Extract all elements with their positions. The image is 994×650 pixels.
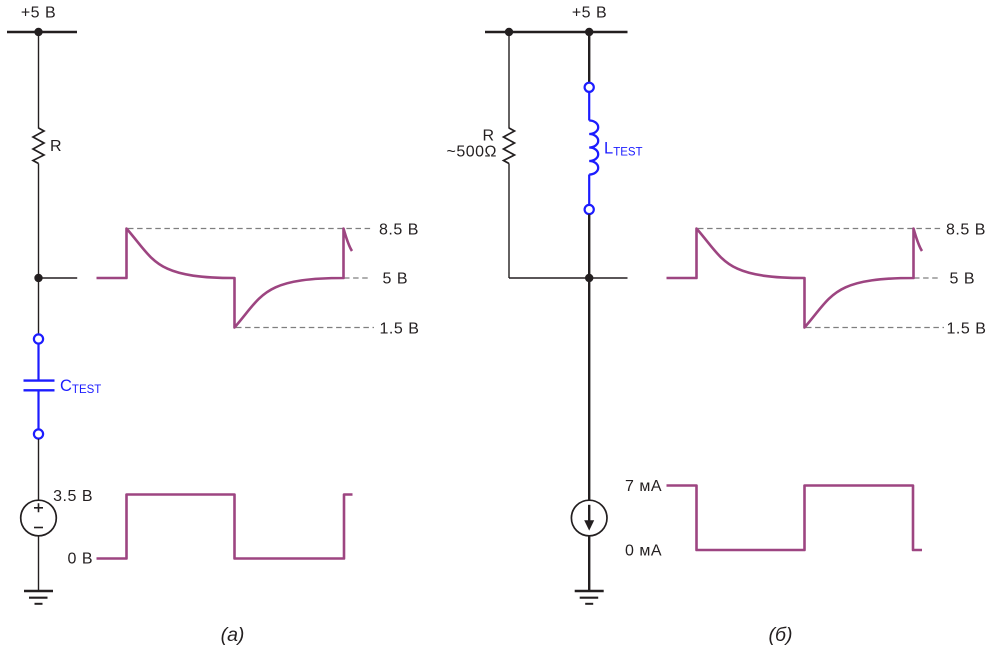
wire: terminal to voltage source V1 <box>38 439 40 501</box>
wire: bottom plate to bottom terminal (blue) <box>37 392 39 430</box>
svg-text:8.5 В: 8.5 В <box>946 222 986 239</box>
svg-text:LTEST: LTEST <box>604 140 643 159</box>
wire: terminal to inductor coil (blue) <box>588 92 590 120</box>
svg-text:CTEST: CTEST <box>60 377 101 396</box>
wire: node A stub toward waveform (a) <box>39 277 78 279</box>
capacitor C_TEST bottom plate <box>24 389 55 391</box>
wire: source to ground (a) <box>38 536 40 591</box>
resistor R ~500ohm (b) <box>504 128 515 164</box>
bottom rail joining R and L branches (b) <box>509 277 628 279</box>
ground (b) <box>575 591 604 604</box>
svg-text:+5 В: +5 В <box>21 5 56 22</box>
dashed level line 5V (b) <box>914 277 941 279</box>
node B junction dot (b) <box>585 274 593 282</box>
wire: resistor to bottom rail (b) <box>508 164 510 279</box>
wire: rail to resistor R (a) <box>38 32 40 129</box>
wire: node B to current source (b) <box>588 278 590 500</box>
+5V supply rail (b) <box>485 31 628 34</box>
dashed level line 8.5V (a) <box>128 228 371 230</box>
voltage source V1 circle <box>21 500 57 536</box>
svg-text:1.5 В: 1.5 В <box>947 321 987 338</box>
wire: coil to bottom terminal (blue) <box>588 175 590 205</box>
waveform: source current square wave (b) <box>667 486 923 551</box>
node: rail junction at L branch (b) <box>585 28 593 36</box>
inductor top terminal circle <box>585 83 594 92</box>
svg-text:3.5 В: 3.5 В <box>53 488 93 505</box>
svg-text:0 мА: 0 мА <box>625 543 662 560</box>
svg-text:~500Ω: ~500Ω <box>447 144 498 161</box>
svg-text:+5 В: +5 В <box>572 5 607 22</box>
wire: node A down to capacitor top terminal (a) <box>38 278 40 334</box>
wire: rail to resistor R (b) <box>508 32 510 129</box>
wire: current source to ground (b) <box>588 536 590 591</box>
svg-text:R: R <box>50 138 62 155</box>
dashed level line 1.5V (b) <box>806 327 944 329</box>
inductor bottom terminal circle <box>585 205 594 214</box>
node: rail junction at R branch (b) <box>505 28 513 36</box>
dashed level line 5V (a) <box>344 277 371 279</box>
capacitor bottom terminal circle <box>34 429 43 438</box>
capacitor C_TEST top plate <box>24 379 55 381</box>
waveform: source voltage square wave (a) <box>97 495 353 559</box>
wire: resistor to node A (a) <box>38 164 40 279</box>
svg-text:5 В: 5 В <box>383 271 409 288</box>
svg-text:5 В: 5 В <box>950 271 976 288</box>
current source arrow <box>584 505 594 531</box>
resistor R (a) <box>33 128 44 164</box>
ground (a) <box>24 591 53 604</box>
svg-text:0 В: 0 В <box>67 551 93 568</box>
voltage source plus sign <box>34 503 43 512</box>
inductor L_TEST coil <box>589 121 598 175</box>
capacitor top terminal circle <box>34 334 43 343</box>
voltage source minus sign <box>34 527 43 529</box>
svg-text:(а): (а) <box>221 624 245 646</box>
svg-text:R: R <box>482 128 494 145</box>
+5V supply rail (a) <box>7 31 77 34</box>
wire: terminal to bottom node (b) <box>588 214 590 278</box>
waveform: node B voltage transient (b) <box>667 229 923 328</box>
node A junction dot (a) <box>34 274 42 282</box>
dashed level line 1.5V (a) <box>236 327 374 329</box>
svg-text:8.5 В: 8.5 В <box>379 222 419 239</box>
svg-text:(б): (б) <box>769 624 793 646</box>
svg-text:1.5 В: 1.5 В <box>380 321 420 338</box>
wire: rail to inductor top terminal (b) <box>588 32 590 82</box>
dashed level line 8.5V (b) <box>698 228 941 230</box>
node: +5V rail junction dot (a) <box>34 28 42 36</box>
current source I1 circle <box>571 500 607 536</box>
wire: terminal to top plate (blue) <box>37 344 39 380</box>
svg-text:7 мА: 7 мА <box>625 478 662 495</box>
waveform: node A voltage transient (a) <box>97 229 353 328</box>
